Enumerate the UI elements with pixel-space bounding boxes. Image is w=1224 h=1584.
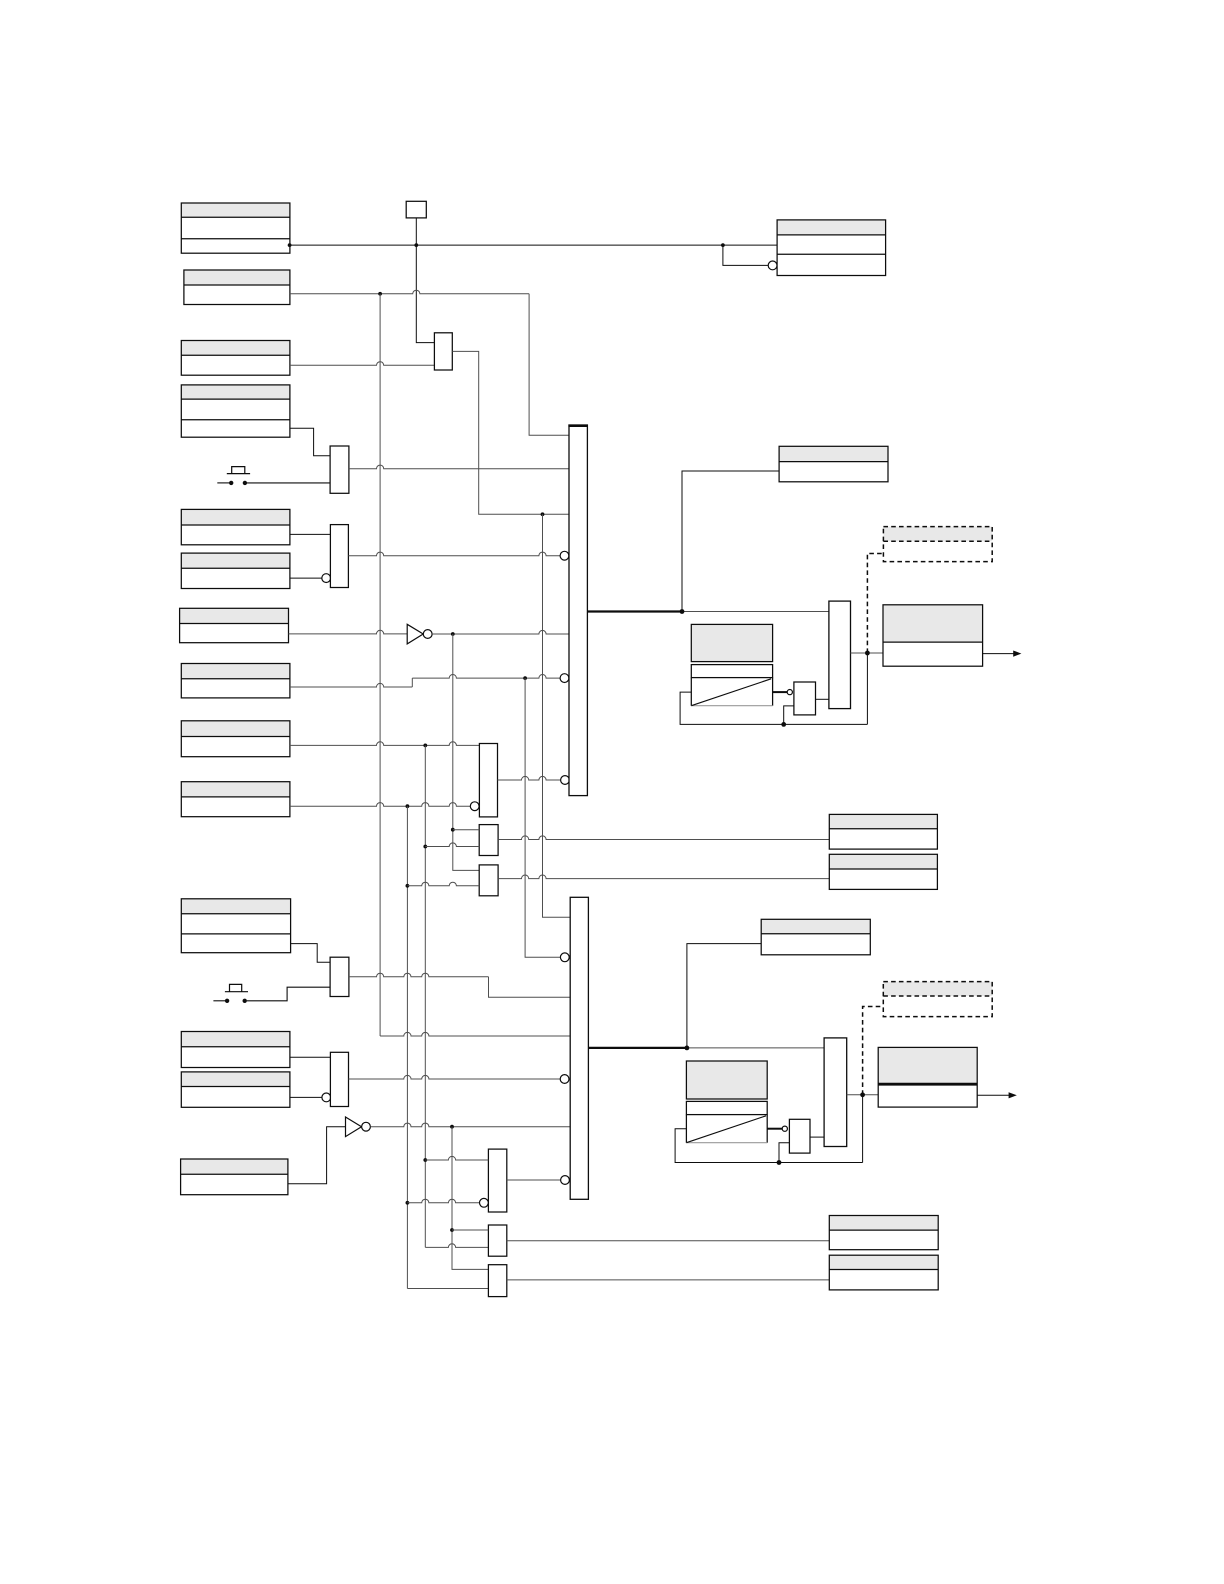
vertical bus x525 (B8 signal to bar2) <box>525 678 560 957</box>
inversion bubble G5 input <box>480 1198 489 1207</box>
wire x407 to G3 input2 <box>407 882 479 886</box>
contact wire P1 left <box>217 482 229 484</box>
input box B12 (2 rows) <box>181 1032 290 1068</box>
wire B2 down into bar1 <box>529 294 569 435</box>
junction SQ1/B1 wire <box>414 243 418 247</box>
inverter INV2 triangle <box>346 1117 362 1137</box>
gate G7 <box>488 1265 506 1297</box>
inversion bubble bar2 input y1079 <box>560 1075 569 1084</box>
wire feedback 2 vertical <box>862 1095 864 1163</box>
counter block CB1 preset (grey) <box>691 624 772 661</box>
input box B10 (2 rows) <box>181 782 290 817</box>
bus bar2 to bar4 (bold) <box>588 1047 687 1049</box>
vertical bus x425 (B9 signal) <box>424 745 426 1247</box>
wire B6 to AND1 bubble <box>290 577 322 579</box>
gate G0 <box>434 333 452 370</box>
selector bar2 <box>570 897 588 1199</box>
contact wire P2 into T2 <box>247 987 330 1001</box>
junction bus x425 / G2 input <box>423 845 427 849</box>
wire B10 to G1 bubble <box>290 803 470 807</box>
wire B4 to timer T1 <box>290 428 330 456</box>
result box RM2 (2 rows) <box>829 854 937 889</box>
pulse symbol P2 <box>225 991 248 993</box>
wire G3 output to RM2 <box>498 875 829 879</box>
junction B8 wire / bus x525 <box>523 676 527 680</box>
wire feedback 2 to CB2 <box>675 1129 863 1163</box>
input box B6 (2 rows) <box>181 553 290 588</box>
dashed box DB1 (2 rows) <box>883 527 992 562</box>
junction bus x425 / G5 input <box>423 1158 427 1162</box>
vertical bus x407 (B10 signal) <box>406 806 408 1288</box>
wire CB1 output (bold) <box>773 691 788 693</box>
small square SQ1 <box>406 201 426 218</box>
wire B8 stepped into bar1 <box>290 683 412 687</box>
dashed link to DB1 <box>867 554 883 654</box>
contact dot P2 a <box>225 999 229 1003</box>
wire B12 to gate G4 <box>290 1056 331 1058</box>
result box RM4 (2 rows) <box>829 1255 938 1290</box>
gate G3 <box>479 865 498 896</box>
wire G2 output to RM1 <box>498 836 829 840</box>
inversion bubble bar2 input y1180 <box>561 1176 570 1185</box>
wire x425 to G2 input2 <box>425 843 479 847</box>
gate G5 <box>488 1149 506 1212</box>
wire B7 to inverter INV1 <box>289 630 408 634</box>
dashed link to DB2 <box>863 1007 884 1095</box>
small bubble CB2/SG2 <box>782 1126 787 1131</box>
contact dot P1 a <box>229 481 233 485</box>
wire OB2 output arrow <box>977 1094 1010 1096</box>
timer box T2 <box>330 957 349 996</box>
input box B2 (2 rows) <box>184 270 290 305</box>
junction output net 2 <box>860 1092 865 1097</box>
junction B9 wire / bus x425 <box>423 744 427 748</box>
result box RM3 (2 rows) <box>829 1216 938 1250</box>
input box B9 (2 rows) <box>181 721 290 757</box>
counter block CB2 middle row <box>686 1101 767 1114</box>
wire x380 into bar2 <box>380 1032 570 1036</box>
junction at B1 output <box>288 243 292 247</box>
timer box T1 <box>330 446 349 493</box>
inversion bubble bar1 input y556 <box>560 551 569 560</box>
vertical bus x542 (G0 signal to bar2) <box>543 514 571 917</box>
junction INV1 output / bus x452 <box>451 632 455 636</box>
wire feedback 1 to CB1 <box>680 692 867 724</box>
input box B14 (2 rows) <box>181 1159 288 1195</box>
junction bus x452 / G6 input <box>450 1228 454 1232</box>
contact wire P2 left <box>213 1000 225 1002</box>
wire OB1 output arrow <box>983 653 1015 655</box>
wire G4 output to bar2 <box>349 1075 561 1079</box>
output box OB1 <box>883 605 983 666</box>
result box RM1 (2 rows) <box>829 814 937 849</box>
wire G5 output to bar2 <box>507 1179 561 1181</box>
wire G7 output to RM4 <box>507 1279 830 1281</box>
wire B11 to timer T2 <box>291 944 331 963</box>
output bar4 <box>824 1038 847 1147</box>
wire G6 output to RM3 <box>507 1240 830 1242</box>
gate G6 <box>488 1225 506 1256</box>
inverter INV2 bubble <box>362 1122 371 1131</box>
wire bar4 output to OB2 <box>847 1094 879 1096</box>
junction bus x407 / G3 input <box>406 884 410 888</box>
wire G0 output to bar1 <box>452 351 569 514</box>
wire G1 output to bar1 <box>498 776 561 780</box>
junction B10 wire / bus x407 <box>406 804 410 808</box>
wire bar3 output to OB1 <box>851 652 884 654</box>
vertical bus x452 lower (INV2 signal) <box>452 1127 488 1270</box>
inversion bubble G1 input <box>470 802 479 811</box>
junction feedback 1 / SG1 input2 <box>781 722 786 727</box>
run box RB4 (2 rows) <box>761 919 870 955</box>
wire B5 to gate AND1 <box>290 533 331 535</box>
output box OB2 <box>878 1047 977 1107</box>
gate G2 <box>479 825 498 856</box>
vertical bus x380 (B2 signal to bar2) <box>379 294 381 1036</box>
vertical bus x452 upper (INV1 signal) <box>453 634 479 870</box>
input box B4 (3 rows) <box>181 385 290 437</box>
wire CB2 output (bold) <box>767 1128 782 1130</box>
output bar3 <box>829 601 851 709</box>
junction output net 1 <box>865 651 870 656</box>
status box RB1 (3 rows) <box>777 220 886 276</box>
input box B13 (2 rows) <box>181 1072 290 1107</box>
wire up to run box RB2 <box>682 471 779 612</box>
counter block CB1 middle row <box>691 665 772 678</box>
wire feedback 1 vertical <box>866 653 868 724</box>
wire INV1 output to bar1 <box>432 630 569 634</box>
inversion bubble at RB1 row3 <box>768 261 777 270</box>
wire x407 to G5 input2 <box>407 1199 479 1203</box>
dashed box DB2 (2 rows) <box>883 982 992 1017</box>
gate AND1 <box>330 525 348 588</box>
gate SG1 <box>794 682 816 715</box>
wire T2 output to bar2 <box>349 973 489 977</box>
bus bar1 to bar3 (bold) <box>587 610 682 612</box>
input box B1 (3 rows) <box>181 203 290 253</box>
junction INV2 output / bus x452 lower <box>450 1125 454 1129</box>
input box B3 (2 rows) <box>181 341 290 376</box>
gate G4 <box>330 1052 348 1106</box>
wire INV2 output to bar2 <box>370 1123 570 1127</box>
counter block CB2 preset (grey) <box>686 1061 767 1099</box>
inverter INV1 triangle <box>407 624 423 644</box>
wire AND1 output to bar1 <box>348 552 560 556</box>
input box B8 (2 rows) <box>181 664 290 698</box>
junction branch to RB1 row3 <box>721 243 725 247</box>
input box B7 (2 rows) <box>180 608 289 642</box>
junction B2 wire / vertical bus x380 <box>378 292 382 296</box>
wire B13 to G4 bubble <box>290 1096 322 1098</box>
junction bus x407 / G5 input <box>406 1201 410 1205</box>
gate G1 <box>479 744 497 817</box>
wire B3 to gate G0 <box>290 362 435 366</box>
contact dot P1 b <box>243 481 247 485</box>
counter block CB2 ramp box <box>686 1115 767 1143</box>
small bubble CB1/SG1 <box>787 690 792 695</box>
wire up to run box RB4 <box>687 944 761 1048</box>
wire feedback tap to SG1 input2 <box>784 706 794 725</box>
inverter INV1 bubble <box>423 630 432 639</box>
contact dot P2 b <box>243 999 247 1003</box>
input box B11 (3 rows) <box>181 899 290 953</box>
wire branch down to RB1 row3 bubble <box>723 245 768 265</box>
junction G0 output / bus x542 <box>541 512 545 516</box>
wire x452 to G6 input1 <box>452 1229 488 1231</box>
gate SG2 <box>789 1119 810 1153</box>
inversion bubble bar2 input y957 <box>560 953 569 962</box>
wire x425 to G5 input1 <box>425 1156 488 1160</box>
wire B1 to box RB1 <box>290 244 777 246</box>
pulse symbol P1 <box>227 473 250 475</box>
wire T1 output to bar1 <box>349 465 569 469</box>
junction run-box RB2 tap <box>680 609 685 614</box>
wire feedback tap to SG2 input2 <box>779 1143 789 1163</box>
wire SG2 output to bar4 <box>810 1136 824 1138</box>
wire SQ1 down to gate G0 <box>416 218 434 343</box>
contact wire P1 into T1 <box>247 482 330 484</box>
run box RB2 (2 rows) <box>779 446 888 482</box>
wire SG1 output to bar3 <box>816 698 829 700</box>
inversion bubble AND1 input <box>322 574 331 583</box>
selector bar1 <box>569 425 587 795</box>
wire B2 right with hop over SQ1 line <box>290 290 529 294</box>
input box B5 (2 rows) <box>181 509 290 544</box>
wire B9 to gate G1 <box>290 742 480 746</box>
inversion bubble bar1 input y678 <box>560 674 569 683</box>
wire x452 to G2 input1 <box>453 829 479 831</box>
counter block CB1 ramp box <box>691 678 772 706</box>
junction feedback 2 / SG2 input2 <box>777 1160 782 1165</box>
junction run-box RB4 tap <box>685 1046 690 1051</box>
wire B14 up to inverter INV2 <box>288 1127 346 1184</box>
inversion bubble G4 input <box>322 1093 331 1102</box>
inversion bubble bar1 input y780 <box>561 776 570 785</box>
junction bus x452 / G2 input <box>451 828 455 832</box>
